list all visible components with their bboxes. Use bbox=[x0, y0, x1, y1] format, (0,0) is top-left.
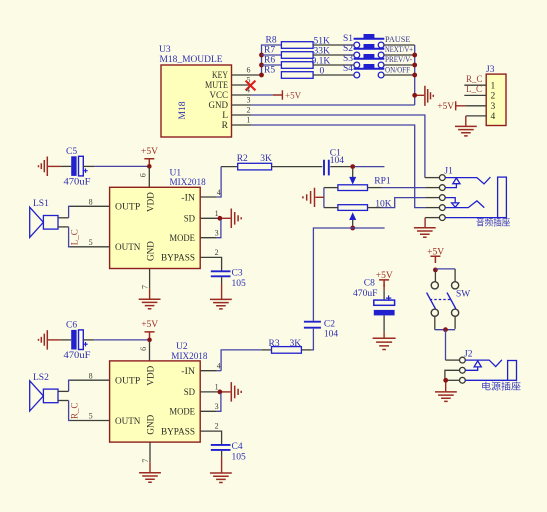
junction dot J2 ground bbox=[443, 378, 448, 383]
U3 pin 6 KEY stub bbox=[232, 65, 261, 75]
svg-text:6: 6 bbox=[139, 173, 148, 177]
svg-text:4: 4 bbox=[246, 85, 250, 94]
svg-text:S3: S3 bbox=[343, 54, 353, 64]
wire GND row to switch common bbox=[252, 104, 415, 106]
U2 pin 7 GND stub bbox=[141, 442, 150, 463]
J3 pin 1 wire / net R_C bbox=[464, 74, 486, 85]
wire C1 to wiper node bbox=[330, 166, 350, 168]
wire R8 to S1 bbox=[313, 44, 354, 46]
svg-text:6: 6 bbox=[139, 347, 148, 351]
U1 pin 8 OUTP stub bbox=[70, 197, 110, 206]
resistor R5 bbox=[264, 65, 325, 78]
U3 pin 5 MUTE stub bbox=[232, 75, 251, 85]
svg-text:KEY: KEY bbox=[212, 71, 228, 81]
svg-text:1: 1 bbox=[215, 209, 219, 218]
wire R7 to S2 bbox=[313, 54, 354, 56]
svg-text:3: 3 bbox=[215, 402, 219, 411]
J1 designator bbox=[444, 167, 453, 177]
svg-text:NEXT/V+: NEXT/V+ bbox=[385, 45, 413, 54]
svg-text:R8: R8 bbox=[266, 35, 277, 45]
svg-text:MODE: MODE bbox=[169, 408, 195, 418]
svg-text:1: 1 bbox=[491, 81, 496, 91]
RP1 wiper arrow top bbox=[349, 169, 356, 185]
ground right of SD2 bbox=[222, 382, 241, 402]
svg-text:R2: R2 bbox=[237, 154, 248, 164]
wire MODE2 to SD2 bbox=[217, 393, 221, 411]
svg-text:R6: R6 bbox=[264, 55, 275, 65]
U1 pin 6 VDD stub bbox=[139, 168, 150, 188]
svg-text:MIX2018: MIX2018 bbox=[170, 178, 206, 188]
svg-text:OUTN: OUTN bbox=[115, 243, 141, 253]
wire R6 left bbox=[262, 64, 282, 66]
svg-text:-IN: -IN bbox=[181, 367, 195, 377]
svg-text:C5: C5 bbox=[66, 147, 77, 157]
power +5V at VCC (right style) bbox=[273, 90, 302, 100]
junction dot SW bottom bbox=[443, 327, 448, 332]
U1 pin names bbox=[115, 192, 195, 264]
potentiometer RP1 top body bbox=[338, 176, 391, 190]
svg-text:3K: 3K bbox=[290, 339, 302, 349]
wire LS2 top to OUTP bbox=[58, 380, 71, 391]
U3 pin 4 VCC stub bbox=[232, 85, 252, 95]
junction dot SW top bbox=[433, 268, 438, 273]
J1 switch arrow up bbox=[445, 178, 460, 188]
svg-text:GND: GND bbox=[146, 415, 156, 435]
ground right of SD bbox=[222, 209, 241, 229]
svg-text:GND: GND bbox=[146, 241, 156, 261]
svg-text:6: 6 bbox=[247, 65, 251, 74]
wire switch common vertical bbox=[414, 45, 416, 105]
wire LS1 top to OUTP bbox=[58, 206, 71, 218]
capacitor C6 bbox=[61, 320, 91, 361]
wire SW top branches bbox=[435, 269, 455, 282]
capacitor C4 bbox=[211, 442, 246, 462]
power +5V above U2 bbox=[141, 320, 158, 338]
resistor R6 bbox=[264, 55, 330, 68]
svg-text:R5: R5 bbox=[264, 65, 275, 75]
J3 pin 2 wire / net L_C bbox=[464, 84, 486, 95]
svg-text:470uF: 470uF bbox=[64, 177, 91, 187]
svg-text:104: 104 bbox=[324, 330, 339, 340]
junction dot SD2 bbox=[218, 390, 223, 395]
ground under C3 bbox=[210, 299, 232, 309]
power +5V at J3 pin3 bbox=[437, 101, 465, 112]
U2 pin names bbox=[115, 366, 195, 438]
ground under C4 bbox=[210, 473, 232, 483]
svg-text:电源插座: 电源插座 bbox=[481, 381, 521, 392]
wire LS2 bottom to OUTN bbox=[58, 401, 71, 421]
resistor R2 bbox=[237, 154, 272, 170]
ground under J3 pin4 bbox=[455, 116, 477, 136]
J1 pin1 stub bbox=[425, 177, 440, 179]
svg-text:S4: S4 bbox=[343, 64, 353, 74]
U1 pin 2 BYPASS stub bbox=[200, 248, 221, 271]
svg-text:RP1: RP1 bbox=[374, 176, 391, 186]
wire -IN2 riser corner bbox=[217, 370, 221, 372]
U3 pin 3 GND stub bbox=[232, 95, 252, 105]
junction dot wiper2 bbox=[350, 226, 355, 231]
U3 pin 2 L stub bbox=[232, 105, 252, 115]
power +5V above SW bbox=[427, 247, 444, 263]
J2 Chinese label (power socket) bbox=[481, 381, 521, 392]
wire wiper2 node bbox=[313, 228, 384, 321]
M18 rotated label bbox=[178, 101, 188, 119]
wire -IN riser to R2 bbox=[217, 167, 238, 197]
svg-text:7: 7 bbox=[141, 459, 150, 463]
J2 jack tip contact bbox=[465, 360, 502, 367]
J1 switch arrow down bbox=[445, 198, 459, 208]
wire S1 right / net PAUSE bbox=[384, 35, 415, 45]
svg-text:2: 2 bbox=[215, 422, 219, 431]
svg-text:MIX2018: MIX2018 bbox=[171, 352, 207, 362]
RP1 bottom left stub bbox=[324, 207, 338, 209]
J1 pin4 stub bbox=[425, 207, 439, 209]
J1 jack tip contact R bbox=[445, 201, 484, 208]
U1 designator bbox=[170, 168, 182, 178]
svg-text:C3: C3 bbox=[232, 269, 243, 279]
U2 part name bbox=[171, 352, 207, 362]
U2 pin 5 OUTN stub bbox=[70, 412, 110, 421]
svg-text:L_C: L_C bbox=[466, 84, 482, 94]
svg-text:C8: C8 bbox=[364, 279, 375, 289]
J3 pin 4 wire bbox=[466, 115, 486, 117]
svg-text:+5V: +5V bbox=[437, 102, 454, 112]
junction dot VDD node U1 bbox=[147, 164, 152, 169]
op-amp U1 MIX2018 body bbox=[110, 187, 201, 268]
wire LS1 bottom to OUTN bbox=[58, 227, 71, 247]
svg-text:U3: U3 bbox=[159, 45, 171, 55]
U3 designator bbox=[159, 45, 171, 55]
svg-text:MUTE: MUTE bbox=[205, 81, 228, 91]
U3 pin names bbox=[205, 71, 229, 131]
U2 ground lead bbox=[139, 462, 161, 482]
svg-text:SD: SD bbox=[184, 215, 195, 225]
svg-text:C6: C6 bbox=[66, 320, 77, 330]
svg-text:MODE: MODE bbox=[169, 234, 195, 244]
svg-text:470uF: 470uF bbox=[353, 289, 378, 299]
svg-text:+5V: +5V bbox=[285, 90, 302, 100]
svg-text:104: 104 bbox=[330, 156, 345, 166]
wire R5 to S4 bbox=[313, 74, 354, 76]
switch S2 bbox=[343, 44, 384, 58]
J2 designator bbox=[464, 350, 473, 360]
wire R3 left to -IN riser U2 bbox=[221, 350, 271, 371]
svg-text:U2: U2 bbox=[176, 342, 188, 352]
svg-text:4: 4 bbox=[491, 112, 496, 122]
ground under C8 bbox=[373, 338, 396, 349]
J3 pin 3 wire bbox=[466, 105, 487, 107]
resistor R7 bbox=[264, 45, 330, 58]
svg-text:S1: S1 bbox=[343, 34, 353, 44]
ground right of switch column bbox=[417, 86, 433, 106]
J1 Chinese label (audio socket) bbox=[476, 216, 510, 227]
svg-text:LS2: LS2 bbox=[33, 373, 49, 383]
U3 pin 1 R stub bbox=[232, 115, 252, 125]
J1 pin3 stub bbox=[425, 197, 439, 199]
U2 pin 3 MODE stub bbox=[200, 402, 218, 411]
svg-text:1: 1 bbox=[215, 382, 219, 391]
wire R6 to S3 bbox=[313, 64, 354, 66]
svg-text:470uF: 470uF bbox=[64, 351, 91, 361]
speaker LS2 bbox=[30, 373, 58, 411]
RP1 top left stub bbox=[324, 187, 338, 189]
svg-text:R3: R3 bbox=[269, 339, 280, 349]
wire VCC to +5V bbox=[251, 94, 272, 96]
switch SW bbox=[427, 282, 471, 317]
junction dots switch column bbox=[412, 53, 417, 98]
resistor R8 bbox=[266, 35, 331, 48]
svg-text:OUTP: OUTP bbox=[115, 376, 140, 386]
junction dot VDD node U2 bbox=[147, 338, 152, 343]
ground under J2 bbox=[435, 382, 457, 401]
svg-text:SW: SW bbox=[456, 290, 470, 300]
svg-text:R_C: R_C bbox=[466, 74, 483, 84]
wire MODE to SD bbox=[217, 220, 221, 238]
RP1 top right stub and wire to J1 pin2 bbox=[368, 187, 426, 189]
C8 lower lead bbox=[383, 315, 385, 338]
svg-text:BYPASS: BYPASS bbox=[161, 254, 195, 264]
J1 jack tip contact L bbox=[445, 177, 490, 184]
svg-text:8: 8 bbox=[89, 197, 93, 206]
RP1 bottom right stub and jog to J1 pin3 bbox=[368, 198, 426, 208]
wire SW to J2 pin1 bbox=[446, 330, 460, 360]
U1 pin 4 -IN stub bbox=[200, 188, 221, 197]
svg-text:M18: M18 bbox=[178, 101, 188, 119]
U1 part name bbox=[170, 178, 206, 188]
potentiometer RP1 bottom body bbox=[338, 200, 392, 211]
U2 designator bbox=[176, 342, 188, 352]
svg-text:C2: C2 bbox=[324, 320, 335, 330]
wire C6 to +5V node bbox=[83, 339, 147, 341]
wire L net bbox=[252, 115, 425, 178]
wire R2 to C1 bbox=[272, 166, 323, 168]
svg-text:J3: J3 bbox=[486, 65, 495, 75]
svg-text:3K: 3K bbox=[260, 154, 272, 164]
svg-text:VDD: VDD bbox=[146, 366, 156, 386]
svg-text:3: 3 bbox=[491, 102, 496, 112]
J1 sleeve bbox=[445, 177, 506, 218]
svg-text:PAUSE: PAUSE bbox=[385, 35, 411, 44]
wire R7 left bbox=[262, 54, 282, 56]
svg-text:2: 2 bbox=[247, 105, 251, 114]
wire S2 right / net NEXT/V+ bbox=[384, 45, 415, 55]
svg-text:M18_MOUDLE: M18_MOUDLE bbox=[160, 55, 223, 65]
svg-text:GND: GND bbox=[209, 101, 229, 111]
capacitor C5 bbox=[61, 147, 91, 188]
svg-text:R7: R7 bbox=[264, 45, 275, 55]
svg-text:VDD: VDD bbox=[146, 192, 156, 212]
U1 ground lead bbox=[139, 289, 161, 309]
J3 designator bbox=[486, 65, 495, 75]
svg-text:3: 3 bbox=[215, 228, 219, 237]
svg-text:4: 4 bbox=[217, 188, 221, 197]
U2 pin 6 VDD stub bbox=[139, 341, 150, 361]
svg-text:J2: J2 bbox=[464, 350, 473, 360]
capacitor C1 bbox=[324, 148, 344, 175]
svg-text:VCC: VCC bbox=[210, 91, 229, 101]
no-connect X on MUTE bbox=[246, 81, 256, 91]
junction dot wiper1 bbox=[350, 164, 355, 169]
svg-text:+5V: +5V bbox=[141, 320, 158, 330]
svg-text:ON/OFF: ON/OFF bbox=[385, 65, 410, 74]
wire C2 to R3 bbox=[301, 329, 313, 350]
U2 pin 2 BYPASS stub bbox=[200, 422, 221, 445]
connector J1 pins bbox=[439, 175, 445, 221]
svg-text:C4: C4 bbox=[232, 442, 243, 452]
op-amp U2 MIX2018 body bbox=[110, 361, 201, 442]
U1 pin 7 GND stub bbox=[140, 269, 149, 290]
junction column dots bbox=[259, 53, 264, 78]
C4 lower lead bbox=[221, 451, 223, 473]
svg-text:J1: J1 bbox=[444, 167, 453, 177]
J2 sleeve bbox=[465, 361, 516, 381]
U3 part name label bbox=[160, 55, 223, 65]
power +5V above C8 bbox=[376, 271, 393, 287]
svg-text:L_C: L_C bbox=[69, 229, 79, 245]
svg-text:+5V: +5V bbox=[427, 247, 444, 257]
svg-text:U1: U1 bbox=[170, 168, 182, 178]
switch S3 bbox=[343, 54, 384, 68]
capacitor C3 bbox=[211, 269, 246, 289]
switch S4 bbox=[343, 64, 384, 78]
power +5V above U1 bbox=[141, 147, 158, 166]
module U3 M18_MOUDLE body bbox=[161, 65, 232, 137]
net label R_C vertical bbox=[69, 402, 79, 419]
J2 switch arrow bbox=[465, 361, 481, 371]
C3 lower lead bbox=[221, 277, 223, 299]
wire S3 right / net PREV/V- bbox=[384, 55, 415, 65]
RP1 wiper arrow bottom bbox=[349, 212, 356, 226]
svg-text:-IN: -IN bbox=[181, 193, 195, 203]
svg-text:S2: S2 bbox=[343, 44, 353, 54]
junction dot SD bbox=[218, 216, 223, 221]
speaker LS1 bbox=[30, 199, 58, 237]
svg-text:BYPASS: BYPASS bbox=[161, 427, 195, 437]
wire C5 to +5V node bbox=[83, 165, 147, 167]
svg-text:LS1: LS1 bbox=[33, 199, 49, 209]
svg-text:7: 7 bbox=[140, 285, 149, 289]
svg-text:PREV/V-: PREV/V- bbox=[385, 55, 412, 64]
resistor R3 bbox=[269, 339, 302, 353]
svg-text:+5V: +5V bbox=[376, 271, 393, 281]
svg-text:2: 2 bbox=[491, 92, 496, 102]
svg-text:2: 2 bbox=[215, 248, 219, 257]
RP1 left bracket wire bbox=[323, 188, 325, 208]
U2 pin 4 -IN stub bbox=[200, 362, 221, 371]
svg-text:SD: SD bbox=[184, 388, 195, 398]
ground under J1 pin5 bbox=[414, 218, 436, 238]
svg-text:5: 5 bbox=[89, 412, 93, 421]
capacitor C8 bbox=[353, 279, 395, 316]
svg-text:OUTN: OUTN bbox=[115, 417, 141, 427]
svg-text:OUTP: OUTP bbox=[115, 203, 140, 213]
wire S4 right / net ON/OFF bbox=[384, 65, 415, 75]
svg-text:3: 3 bbox=[247, 95, 251, 104]
J1 pin5 stub bbox=[425, 217, 439, 219]
ground left of C6 bbox=[39, 330, 61, 350]
capacitor C2 bbox=[304, 320, 339, 340]
J2 pin3 wire bbox=[448, 379, 460, 381]
U1 pin 3 MODE stub bbox=[200, 228, 218, 237]
J2 pin2 wire down bbox=[445, 370, 460, 378]
svg-text:105: 105 bbox=[232, 453, 247, 463]
svg-text:L: L bbox=[222, 111, 228, 121]
svg-text:105: 105 bbox=[232, 279, 247, 289]
ground left of C5 bbox=[39, 157, 61, 177]
U2 pin 1 SD stub bbox=[200, 382, 218, 392]
svg-text:5: 5 bbox=[89, 238, 93, 247]
wire R net bbox=[252, 125, 426, 208]
connector J3 body bbox=[486, 74, 506, 125]
svg-text:8: 8 bbox=[89, 371, 93, 380]
J1 pin2 stub bbox=[425, 187, 439, 189]
svg-text:1: 1 bbox=[247, 115, 251, 124]
U2 pin 8 OUTP stub bbox=[70, 371, 110, 380]
J3 pin numbers 1-4 bbox=[491, 81, 496, 122]
net label L_C vertical bbox=[69, 229, 79, 245]
ground left of RP1 bbox=[303, 188, 324, 207]
U1 pin 5 OUTN stub bbox=[70, 238, 110, 247]
U1 pin 1 SD stub bbox=[200, 209, 218, 219]
wire SW bottom join bbox=[435, 316, 455, 329]
svg-text:+5V: +5V bbox=[141, 147, 158, 157]
svg-text:音频插座: 音频插座 bbox=[476, 216, 510, 227]
wire stub right of wiper1 bbox=[355, 166, 385, 168]
svg-text:R: R bbox=[222, 121, 229, 131]
connector J2 pins bbox=[460, 357, 466, 383]
svg-text:R_C: R_C bbox=[69, 402, 79, 419]
switch S1 bbox=[343, 34, 384, 48]
wire resistor left column bbox=[262, 45, 282, 76]
svg-text:4: 4 bbox=[217, 362, 221, 371]
